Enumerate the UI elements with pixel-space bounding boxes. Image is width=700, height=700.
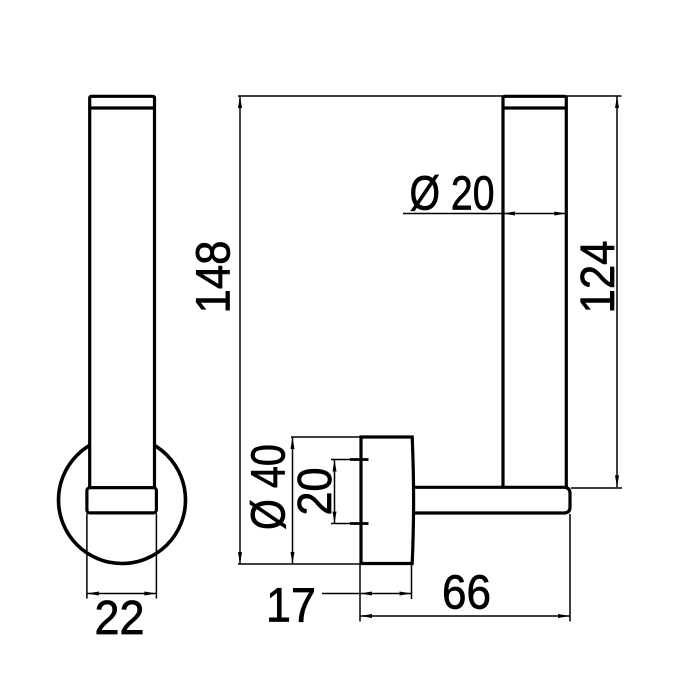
- dimension 17: arrows: [360, 592, 412, 596]
- dimension 22: extension lines: [87, 514, 156, 599]
- dimension 124: dimension line: [616, 96, 618, 487]
- dimension 66: dimension line: [360, 615, 570, 617]
- dimension 22: dimension line: [87, 593, 156, 595]
- svg-text:17: 17: [266, 579, 316, 633]
- svg-text:22: 22: [95, 591, 145, 645]
- dimension 20: arrows: [333, 460, 337, 524]
- svg-text:124: 124: [571, 241, 625, 314]
- dimension 66: right extension line: [569, 514, 571, 622]
- right view: vertical rod (front view, Ø20, length 124): [503, 96, 566, 487]
- dimension 17: dimension line with leader to text: [322, 593, 412, 595]
- left view: wall rosette circle (Ø40): [59, 437, 186, 564]
- dimension 20: dimension line: [334, 460, 336, 524]
- svg-text:66: 66: [442, 566, 491, 620]
- left view: vertical rod (side view, Ø20): [90, 96, 155, 487]
- dimension Ø40: dimension line: [292, 437, 294, 564]
- dimension 17: extension lines: [360, 565, 412, 622]
- dimension 20 (neck): extension lines with thick ticks across plate edge: [331, 460, 369, 524]
- dimension 124: arrows: [615, 96, 619, 487]
- dimension 148: arrows: [238, 96, 242, 564]
- right view: bracket arm (horizontal, projection 66): [400, 487, 570, 513]
- svg-text:148: 148: [187, 241, 241, 314]
- left view: bar end cap (width 22): [87, 488, 156, 513]
- dimension Ø40: top extension line: [291, 436, 361, 438]
- right view: wall plate (Ø40 side view, depth 17): [361, 437, 414, 564]
- dimension 22: arrows: [87, 592, 156, 596]
- dimension 124: bottom extension line: [571, 487, 622, 489]
- svg-text:20: 20: [288, 468, 342, 516]
- dimension Ø40: arrows: [291, 437, 295, 564]
- dimension 148: top extension line: [238, 95, 622, 97]
- dimension Ø20: dimension line: [403, 213, 566, 215]
- svg-text:Ø 20: Ø 20: [410, 167, 495, 221]
- dimension 148: dimension line: [239, 96, 241, 564]
- dimension Ø20: arrows at rod edges: [503, 212, 566, 216]
- dimension 148 and Ø40: bottom extension line: [238, 563, 361, 565]
- dimension 66: arrows: [360, 614, 570, 618]
